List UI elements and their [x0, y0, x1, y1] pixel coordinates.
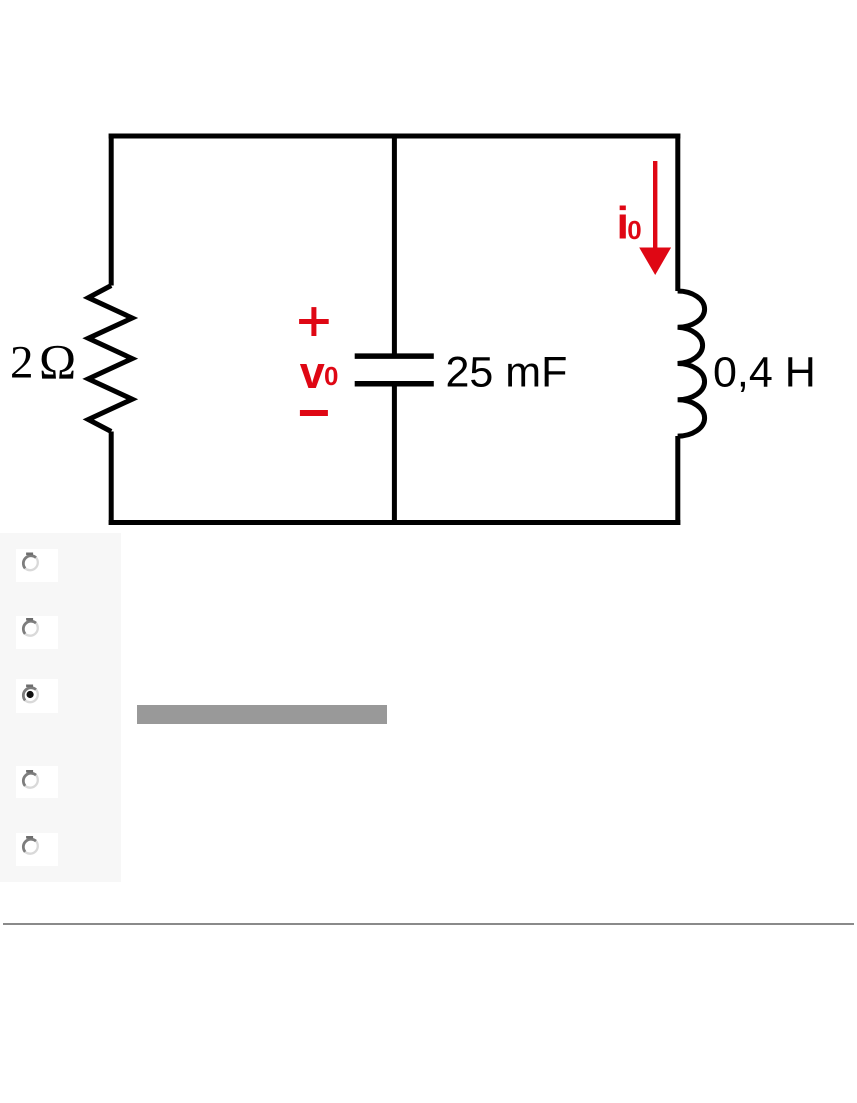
svg-text:2: 2 [10, 337, 34, 389]
svg-text:0: 0 [627, 215, 641, 245]
svg-text:0: 0 [324, 361, 338, 391]
svg-text:v: v [300, 347, 325, 398]
svg-text:0,4 H: 0,4 H [713, 349, 816, 397]
svg-text:25 mF: 25 mF [446, 349, 568, 397]
svg-text:Ω: Ω [39, 334, 76, 390]
